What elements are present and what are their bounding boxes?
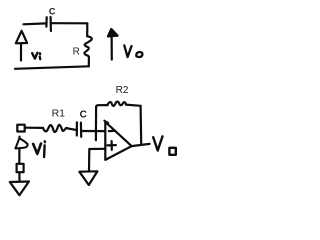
wire from capacitor to top-right corner bbox=[51, 22, 87, 24]
wire from square to ground bbox=[18, 172, 20, 181]
op-amp plus sign vertical bbox=[110, 141, 112, 150]
capacitor C bottom circuit, left plate bbox=[76, 122, 78, 135]
arrow Vo shaft (top circuit output arrow) bbox=[110, 35, 112, 60]
input terminal square (bottom circuit) bbox=[17, 125, 24, 132]
handwritten label Vo (bottom circuit) o square bbox=[169, 148, 175, 155]
feedback wire to top-right corner bbox=[126, 105, 141, 106]
op-amp minus sign bbox=[109, 130, 116, 133]
feedback wire up-left corner bbox=[96, 105, 107, 107]
capacitor C top circuit, right plate bbox=[49, 17, 52, 31]
handwritten label Vo (bottom circuit) V stroke bbox=[153, 136, 162, 150]
handwritten label vi (top circuit) i dot bbox=[39, 52, 42, 55]
wire from capacitor to op-amp inverting input bbox=[81, 130, 105, 132]
wire from R1 to capacitor C bbox=[68, 129, 76, 130]
arrow Vi sloppy arrowhead loop bbox=[15, 138, 27, 148]
wire below resistor R down to bottom wire bbox=[88, 58, 90, 67]
arrow vi open arrowhead bbox=[16, 31, 27, 44]
wire from non-inverting input to ground corner bbox=[89, 149, 105, 171]
arrow vi shaft (top circuit source arrow) bbox=[20, 43, 22, 61]
output wire from op-amp apex bbox=[132, 144, 150, 146]
ground under op-amp (triangle) bbox=[79, 171, 97, 185]
wire top-left segment (top circuit) bbox=[24, 22, 47, 25]
handwritten label Vi (bottom circuit) v stroke bbox=[33, 144, 41, 154]
handwritten label vi (top circuit) i lower stroke bbox=[39, 57, 42, 59]
svg-text:C: C bbox=[80, 109, 87, 120]
handwritten label Vo (top circuit) o diamond bbox=[136, 52, 142, 57]
op-amp U1 triangle bbox=[105, 122, 131, 160]
op-amp plus sign horizontal bbox=[108, 144, 116, 146]
lower terminal square above ground bbox=[17, 164, 24, 172]
svg-text:C: C bbox=[49, 7, 56, 17]
resistor R1 (horizontal wavy) bbox=[43, 125, 68, 132]
handwritten label Vo (top circuit) V stroke bbox=[124, 45, 131, 57]
capacitor C top circuit, left plate bbox=[45, 17, 47, 26]
ground bottom-left (triangle) bbox=[10, 182, 29, 196]
junction vertical at inverting input node bbox=[95, 107, 97, 140]
svg-text:R1: R1 bbox=[52, 108, 66, 120]
resistor R (vertical squiggle coil) bbox=[84, 36, 91, 57]
arrow Vo filled arrowhead bbox=[108, 29, 118, 36]
feedback wire right vertical down to output bbox=[140, 106, 143, 144]
wire bottom of top circuit bbox=[15, 66, 89, 69]
capacitor C bottom circuit, right plate bbox=[80, 123, 82, 137]
op-amp top-left overshoot tick bbox=[104, 121, 108, 123]
svg-text:R2: R2 bbox=[116, 85, 129, 96]
wire from terminal to R1 bbox=[25, 127, 43, 129]
handwritten label vi (top circuit) v stroke bbox=[32, 53, 37, 59]
wire right vertical down to resistor R bbox=[86, 23, 88, 36]
resistor R2 (small squiggle in feedback wire) bbox=[108, 102, 127, 106]
svg-text:R: R bbox=[73, 46, 80, 57]
handwritten label Vi (bottom circuit) i stroke bbox=[43, 145, 46, 157]
handwritten label Vi (bottom circuit) i dot bbox=[44, 140, 47, 143]
arrow Vi shaft (bottom input arrow) bbox=[18, 137, 20, 164]
